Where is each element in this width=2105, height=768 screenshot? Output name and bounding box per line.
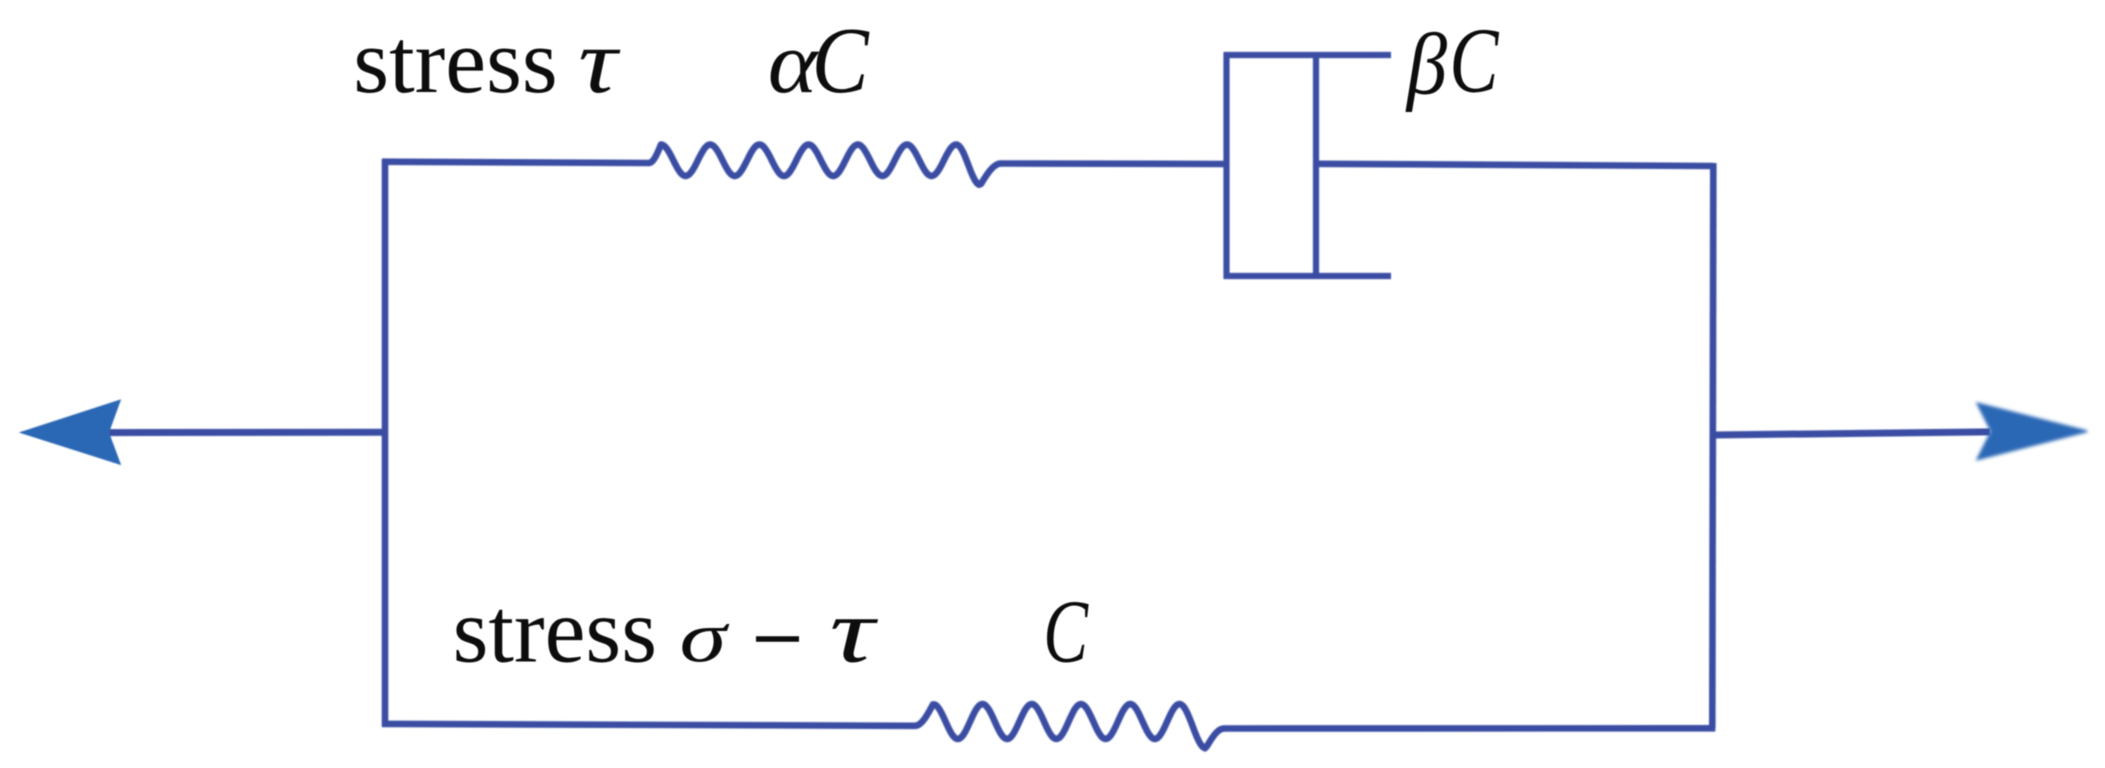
svg-text:τ: τ bbox=[830, 579, 879, 681]
svg-text:C: C bbox=[1449, 9, 1499, 112]
svg-text:C: C bbox=[812, 9, 870, 112]
svg-text:σ: σ bbox=[680, 598, 731, 678]
svg-text:C: C bbox=[1043, 582, 1089, 682]
svg-text:stress: stress bbox=[353, 10, 557, 112]
svg-text:β: β bbox=[1405, 16, 1447, 113]
svg-text:τ: τ bbox=[578, 10, 621, 112]
svg-text:stress: stress bbox=[453, 580, 657, 682]
